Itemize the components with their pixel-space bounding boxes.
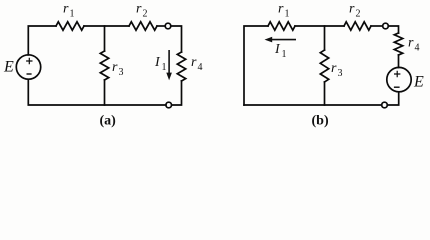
svg-text:1: 1: [162, 62, 167, 73]
resistor r3 (b): [320, 50, 328, 82]
svg-text:3: 3: [338, 68, 343, 79]
source E (a) minus sign: [27, 73, 31, 75]
svg-text:r: r: [278, 2, 284, 17]
svg-text:(b): (b): [312, 114, 329, 129]
source E (a) plus sign: [27, 58, 32, 63]
node: (a) top-right open terminal: [165, 23, 171, 29]
source E (a) circle: [16, 55, 40, 79]
svg-text:1: 1: [285, 9, 290, 20]
source E (b) minus sign: [395, 86, 399, 88]
svg-text:I: I: [154, 55, 161, 70]
wire: (b) r4 to source E: [398, 55, 400, 68]
resistor r3 (a): [100, 51, 108, 80]
current arrow I1 (b): [265, 37, 297, 43]
resistor r1 (b): [268, 22, 295, 30]
resistor r4 (a): [177, 52, 185, 81]
svg-text:r: r: [408, 36, 414, 51]
svg-text:2: 2: [143, 9, 148, 20]
wire: (b) r2 to top terminal: [371, 25, 383, 27]
wire: (a) bottom wire: [28, 79, 166, 105]
current arrow I1 (a): [166, 50, 172, 80]
node: (a) bottom-right open terminal: [166, 102, 172, 108]
wire: (a) terminal to top-right corner down to r4: [171, 26, 182, 52]
svg-text:E: E: [3, 59, 14, 76]
svg-text:r: r: [112, 60, 118, 75]
wire: (b) source E to bottom-right corner: [387, 92, 398, 105]
svg-text:r: r: [331, 61, 337, 76]
svg-text:1: 1: [282, 49, 287, 60]
node: (b) bottom open terminal: [382, 102, 388, 108]
svg-text:r: r: [63, 2, 69, 17]
wire: (b) r3 branch top stub: [324, 26, 326, 50]
wire: (a) r3 branch top stub: [104, 26, 106, 51]
wire: (a) top-left corner segment: [28, 26, 56, 55]
svg-text:r: r: [136, 2, 142, 17]
wire: (a) r4 to bottom-right corner: [172, 81, 182, 105]
svg-text:4: 4: [198, 62, 203, 73]
resistor r1 (a): [56, 22, 84, 30]
svg-text:3: 3: [119, 67, 124, 78]
svg-text:4: 4: [415, 43, 420, 54]
svg-text:r: r: [191, 55, 197, 70]
resistor r2 (a): [129, 22, 157, 30]
resistor r4 (b): [394, 33, 402, 55]
svg-text:I: I: [274, 42, 281, 57]
wire: (a) r3 branch bottom stub: [104, 80, 106, 105]
svg-text:E: E: [413, 74, 424, 91]
source E (b) plus sign: [395, 71, 400, 76]
svg-text:1: 1: [70, 9, 75, 20]
wire: (a) r2 to top terminal: [157, 25, 165, 27]
svg-text:2: 2: [356, 9, 361, 20]
wire: (b) left branch and top-left corner: [244, 26, 268, 105]
source E (b) circle: [387, 67, 411, 91]
resistor r2 (b): [344, 22, 371, 30]
wire: (b) top between r1 and r2: [295, 25, 344, 27]
wire: (a) top between r1 and r2: [84, 25, 129, 27]
wire: (b) bottom wire: [244, 104, 382, 106]
wire: (b) terminal to corner down to r4: [388, 26, 398, 33]
node: (b) top-right open terminal: [383, 23, 389, 29]
svg-text:r: r: [349, 2, 355, 17]
wire: (b) r3 branch bottom stub: [324, 82, 326, 105]
svg-text:(a): (a): [100, 114, 117, 129]
